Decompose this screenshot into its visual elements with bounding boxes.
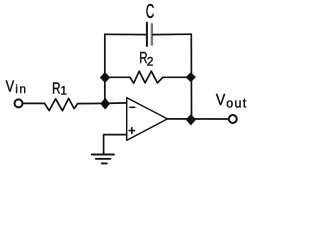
node D output junction (186, 115, 195, 125)
wire op-amp output (167, 118, 228, 120)
svg-text:out: out (226, 96, 247, 110)
wire top-right horizontal (153, 33, 192, 35)
wire top-left horizontal (105, 33, 146, 35)
op-amp plus sign (129, 128, 134, 134)
wire left riser (104, 34, 106, 103)
svg-text:in: in (15, 82, 27, 96)
svg-text:2: 2 (147, 54, 154, 68)
capacitor C left plate (146, 23, 148, 46)
wire right riser (190, 34, 192, 119)
svg-text:C: C (146, 1, 155, 23)
svg-text:1: 1 (60, 84, 67, 98)
svg-text:V: V (6, 78, 15, 96)
resistor R2 (130, 71, 163, 83)
label R1 (52, 79, 67, 98)
ground (92, 155, 114, 164)
label Vout (216, 91, 248, 110)
label C (146, 1, 155, 23)
op-amp U1 triangle (127, 98, 168, 141)
wire R1 to node A (78, 102, 105, 104)
svg-text:R: R (52, 79, 61, 97)
svg-text:V: V (216, 91, 225, 109)
op-amp minus sign (130, 106, 135, 108)
wire Vin to R1 (23, 102, 45, 104)
wire R2 to right riser (163, 76, 191, 78)
wire node B to R2 (105, 76, 130, 78)
capacitor C right plate (151, 24, 153, 45)
resistor R1 (45, 98, 78, 110)
node C-tap right R2 (186, 73, 195, 82)
node Vout terminal (229, 115, 237, 123)
node Vin terminal (15, 99, 23, 107)
node A summing junction (101, 99, 110, 109)
label R2 (139, 48, 154, 68)
label Vin (6, 78, 28, 96)
wire ground to non-inverting input (104, 135, 127, 154)
wire node A to op-amp inverting input (105, 102, 127, 105)
node B left R2 tap (101, 73, 110, 83)
